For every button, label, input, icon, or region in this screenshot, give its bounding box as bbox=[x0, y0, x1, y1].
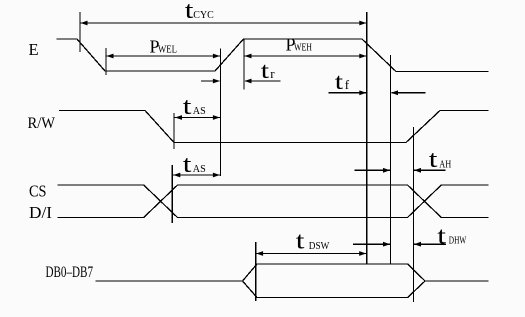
dimension tCYC arrow bbox=[80, 22, 367, 24]
svg-text:t: t bbox=[429, 147, 438, 174]
dimension tr right outside arrow (underline of label) bbox=[245, 80, 281, 82]
bus CS/D-I rail 2 (starts low) bbox=[58, 185, 488, 218]
dimension tf left outside arrow (underline of label) bbox=[329, 92, 367, 94]
svg-text:WEH: WEH bbox=[294, 43, 312, 54]
svg-text:E: E bbox=[29, 40, 39, 59]
address/data hold boundary line bbox=[413, 127, 415, 302]
svg-text:AS: AS bbox=[193, 106, 206, 117]
svg-text:AS: AS bbox=[193, 164, 206, 175]
svg-text:t: t bbox=[183, 151, 192, 178]
svg-text:r: r bbox=[270, 66, 275, 81]
dimension tDSW arrow bbox=[256, 253, 367, 255]
tAS lower left boundary tick bbox=[171, 165, 173, 223]
svg-text:DSW: DSW bbox=[309, 241, 330, 252]
E rise-start boundary line bbox=[219, 49, 221, 177]
tCYC left boundary tick bbox=[79, 12, 81, 52]
dimension PWEL arrow bbox=[106, 55, 220, 57]
svg-text:D/I: D/I bbox=[29, 203, 52, 222]
bus DB0-DB7 trailing wire bbox=[425, 280, 488, 282]
signal E waveform bbox=[57, 39, 488, 72]
svg-text:f: f bbox=[345, 77, 350, 92]
svg-text:t: t bbox=[335, 68, 344, 94]
dimension tr left outside arrow bbox=[201, 80, 219, 82]
tCYC right boundary line (E fall start) bbox=[366, 12, 368, 264]
bus DB0-DB7 lead-in wire bbox=[96, 280, 243, 282]
dimension tDHW left outside arrow bbox=[353, 243, 390, 245]
svg-text:WEL: WEL bbox=[158, 45, 177, 56]
svg-text:t: t bbox=[183, 93, 192, 120]
dimension tAS lower arrow bbox=[173, 174, 221, 176]
dimension PWEH arrow bbox=[244, 55, 367, 57]
dimension tAH right outside arrow bbox=[414, 169, 445, 171]
bus CS/D-I rail 1 (starts high) bbox=[58, 185, 488, 218]
svg-text:CS: CS bbox=[29, 181, 47, 200]
svg-text:DB0–DB7: DB0–DB7 bbox=[46, 264, 94, 281]
svg-text:CYC: CYC bbox=[193, 10, 214, 21]
E rise-end boundary line bbox=[243, 40, 245, 90]
dimension tDHW right outside arrow bbox=[414, 243, 446, 245]
dimension tAH left outside arrow bbox=[355, 169, 390, 171]
dimension tf right outside arrow bbox=[392, 92, 426, 94]
svg-text:t: t bbox=[296, 228, 305, 255]
signal R/W waveform bbox=[60, 111, 489, 143]
tAS upper left boundary tick bbox=[173, 113, 175, 149]
svg-text:R/W: R/W bbox=[28, 115, 56, 132]
svg-text:t: t bbox=[261, 57, 270, 83]
bus DB0-DB7 valid-data hexagon bbox=[243, 264, 426, 298]
svg-text:AH: AH bbox=[439, 159, 451, 170]
svg-text:DHW: DHW bbox=[449, 236, 467, 247]
dimension tAS upper arrow bbox=[175, 117, 221, 119]
tDSW left boundary tick bbox=[255, 242, 257, 301]
svg-text:t: t bbox=[437, 223, 446, 250]
PWEL left boundary tick bbox=[105, 48, 107, 75]
E fall-end boundary line bbox=[390, 55, 392, 264]
